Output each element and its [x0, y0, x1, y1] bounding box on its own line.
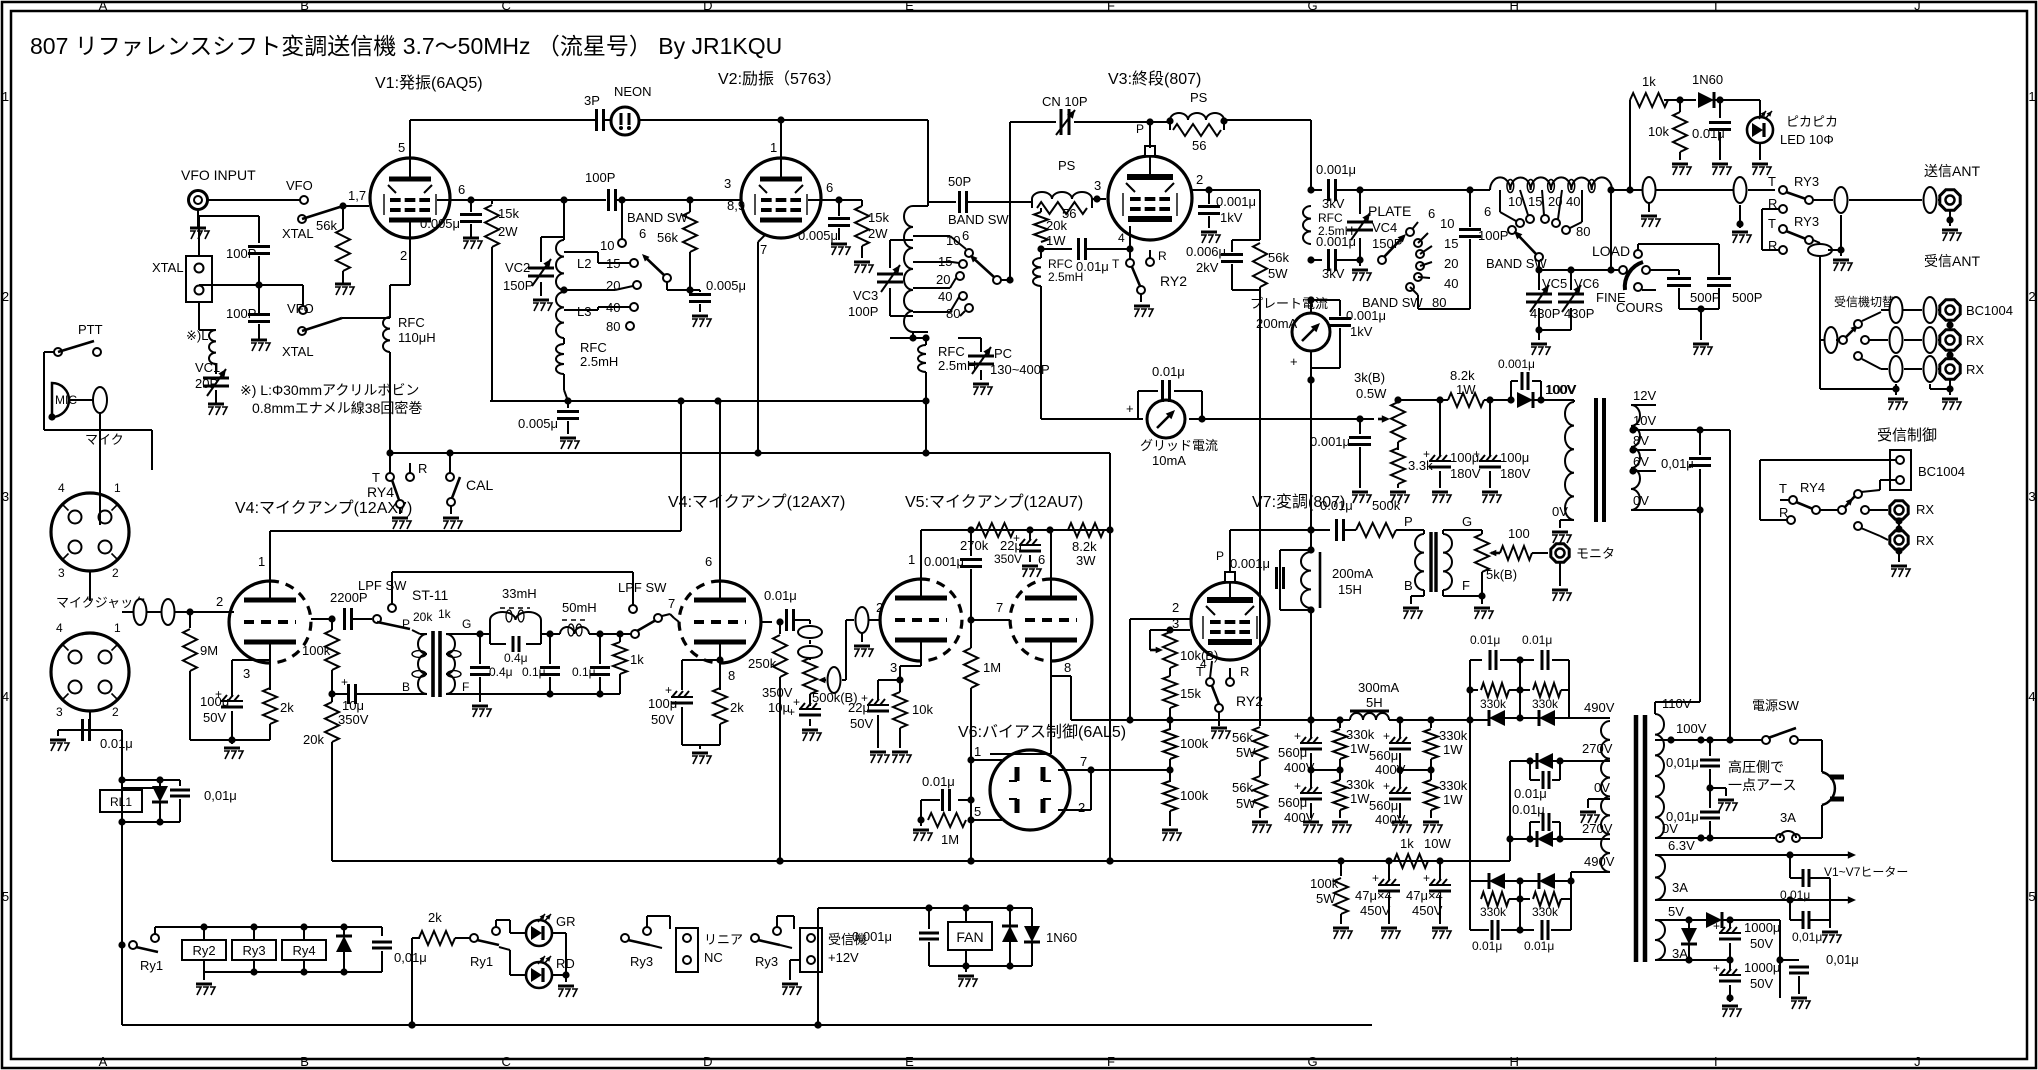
svg-text:R: R — [418, 461, 427, 476]
resistor 1k indicator — [1630, 93, 1668, 107]
bus1 B+ line y401 — [490, 400, 926, 402]
svg-text:XTAL: XTAL — [282, 226, 314, 241]
capacitor 0.001u bias — [1359, 419, 1361, 434]
svg-text:100μ: 100μ — [1500, 450, 1529, 465]
svg-text:0,01μ: 0,01μ — [204, 788, 237, 803]
svg-text:3: 3 — [243, 666, 250, 681]
screen chain down — [1259, 190, 1261, 240]
ecap 22u 50V — [867, 710, 889, 713]
svg-text:モニタ: モニタ — [1576, 546, 1615, 561]
coil L2 L3 — [563, 237, 565, 240]
switch RY2 V3 — [1126, 259, 1134, 267]
svg-text:XTAL: XTAL — [282, 344, 314, 359]
capacitor 0.005u V2 — [699, 290, 701, 292]
hc2 — [1810, 877, 1820, 879]
svg-text:20: 20 — [1444, 256, 1458, 271]
svg-text:RX: RX — [1916, 502, 1934, 517]
wire xtal top — [198, 216, 200, 256]
RFC 2.5mH plate — [1307, 186, 1314, 193]
svg-text:RY3: RY3 — [1794, 174, 1819, 189]
feedthrough ellipse ant2 — [1734, 177, 1747, 203]
svg-text:4: 4 — [56, 621, 63, 635]
ground TX jack — [1949, 211, 1951, 220]
LPF input node — [476, 630, 483, 637]
svg-text:6: 6 — [1428, 206, 1435, 221]
svg-text:6: 6 — [1038, 552, 1045, 567]
wire 250k/1M riser joins — [776, 857, 783, 864]
svg-text:80: 80 — [1576, 224, 1590, 239]
wire V4a plate up loop — [269, 531, 271, 581]
svg-text:330k: 330k — [1480, 905, 1507, 919]
svg-text:4: 4 — [2028, 689, 2035, 704]
wire 3kB top — [1397, 400, 1399, 402]
svg-text:1000μ: 1000μ — [1744, 960, 1780, 975]
svg-text:C: C — [502, 1054, 511, 1069]
feedthrough wiper — [828, 667, 841, 693]
resistor 330k 1W 2 — [1339, 770, 1341, 780]
svg-text:50V: 50V — [1750, 936, 1773, 951]
parasitic suppressor PS V3 grid — [1032, 192, 1092, 199]
wire V7 pin2 drop — [1129, 619, 1131, 720]
central B+ bus x1311 — [1310, 371, 1312, 550]
svg-text:50mH: 50mH — [562, 600, 597, 615]
heater caps 0.01u — [1802, 869, 1805, 887]
wire rx jack interconnect — [1898, 520, 1900, 530]
choke coil 15H — [1301, 552, 1311, 608]
svg-text:LPF SW: LPF SW — [618, 580, 667, 595]
svg-text:NC: NC — [704, 950, 723, 965]
cal arm — [452, 477, 460, 498]
wire V5b cathode — [1050, 642, 1052, 676]
crystal XTAL box — [186, 256, 212, 302]
svg-text:0.001μ: 0.001μ — [924, 554, 964, 569]
cap 0.4u in 33mH loop — [490, 643, 506, 645]
svg-text:0.001μ: 0.001μ — [1216, 194, 1256, 209]
cap 0.4u shunt — [479, 634, 481, 664]
svg-text:15k: 15k — [498, 206, 519, 221]
wire 5v caps — [1729, 920, 1731, 928]
wire NFB chain to B — [331, 694, 333, 702]
power xfmr core — [1636, 715, 1645, 962]
wire — [809, 640, 811, 644]
wire V2 pin6 out — [808, 199, 836, 201]
power xfmr HV winding — [1601, 721, 1610, 872]
svg-text:100: 100 — [1508, 526, 1530, 541]
svg-text:0,01μ: 0,01μ — [1666, 809, 1699, 824]
wire V6 pin5 — [971, 819, 1002, 821]
svg-text:VFO INPUT: VFO INPUT — [181, 167, 256, 183]
bridge2 diode 2 — [1520, 880, 1538, 882]
ground RY2 — [1218, 712, 1220, 726]
svg-text:100k: 100k — [1310, 876, 1339, 891]
feedthrough grid V5a — [856, 607, 869, 633]
ground mic jack — [57, 730, 59, 736]
cap 0.01u 5v — [1780, 959, 1799, 961]
wire V3 cathode — [1129, 226, 1131, 249]
wire 15k down to bus1 — [491, 247, 493, 401]
svg-text:VFO: VFO — [287, 301, 314, 316]
svg-text:P: P — [402, 617, 410, 631]
tank coil — [1490, 177, 1612, 190]
rx contact 1 — [1861, 506, 1869, 514]
svg-text:1N60: 1N60 — [1046, 930, 1077, 945]
svg-text:5H: 5H — [1366, 695, 1383, 710]
svg-text:500P: 500P — [1690, 290, 1720, 305]
wire V3 grid PS — [1030, 201, 1032, 203]
svg-text:330k: 330k — [1346, 777, 1375, 792]
500p bottom rail — [1679, 308, 1719, 310]
tube V7 807 — [1191, 582, 1269, 660]
svg-text:8: 8 — [728, 668, 735, 683]
mod xfmr B lead — [1423, 590, 1425, 596]
wire connector to jack — [89, 571, 91, 601]
wire ANT line — [1611, 189, 1630, 191]
svg-text:100k: 100k — [302, 643, 331, 658]
wire V7 grid2 — [1130, 618, 1190, 620]
svg-text:PLATE: PLATE — [1368, 203, 1411, 219]
svg-text:330k: 330k — [1532, 905, 1559, 919]
capacitor 0.001u 3kV upper — [1311, 189, 1322, 191]
wire 20k to RFC — [1040, 249, 1042, 258]
led common — [552, 932, 566, 934]
bridge2 res 330k 1 — [1469, 881, 1471, 899]
svg-text:0.001μ: 0.001μ — [1310, 434, 1350, 449]
svg-text:110μH: 110μH — [398, 330, 436, 345]
svg-text:5W: 5W — [1316, 891, 1336, 906]
mic MIC — [52, 383, 69, 417]
cap 0.01u snub 270 upper — [1529, 761, 1531, 780]
jack RX 1 — [1940, 330, 1960, 350]
tube V2 5763 — [741, 158, 821, 238]
svg-text:40: 40 — [938, 289, 952, 304]
feedthrough tx ant — [1835, 187, 1848, 213]
svg-text:33mH: 33mH — [502, 586, 537, 601]
ecap 22u 350V — [1029, 530, 1031, 540]
svg-text:50V: 50V — [850, 716, 873, 731]
svg-text:15: 15 — [1444, 236, 1458, 251]
svg-text:F: F — [1107, 1054, 1115, 1069]
svg-text:1W: 1W — [1443, 742, 1463, 757]
svg-text:10k: 10k — [912, 702, 933, 717]
wire BC1004 row — [1881, 309, 1892, 311]
switch Ry1 LED — [470, 934, 478, 942]
resistor 250k — [779, 622, 781, 634]
switch VFO/XTAL lower — [299, 306, 307, 314]
capacitor 0.01u V6 — [958, 799, 971, 801]
svg-text:E: E — [905, 1054, 914, 1069]
feedthrough bc1 — [1890, 297, 1903, 323]
svg-text:1k: 1k — [630, 652, 644, 667]
svg-text:5: 5 — [2, 889, 9, 904]
svg-text:330k: 330k — [1480, 697, 1507, 711]
svg-text:D: D — [703, 0, 712, 13]
jack interconnect verticals — [1949, 321, 1951, 329]
svg-text:3: 3 — [724, 176, 731, 191]
svg-text:4: 4 — [2, 689, 9, 704]
resistor 2k LED — [412, 937, 420, 939]
V2 tank coil vertical — [927, 202, 929, 206]
svg-text:490V: 490V — [1584, 700, 1615, 715]
capacitor 50P — [958, 191, 961, 213]
svg-text:2k: 2k — [730, 700, 744, 715]
svg-text:300mA: 300mA — [1358, 680, 1400, 695]
svg-text:2: 2 — [400, 248, 407, 263]
ground 0.005u — [470, 224, 472, 238]
vertical bus x1110 from 8.2k node to bias bus — [1109, 530, 1111, 861]
bottom long bus — [122, 1024, 1372, 1026]
capacitor 0.005u V1 out — [470, 200, 472, 212]
wire V2 output to 50P — [928, 201, 956, 203]
tube V4a 12AX7 — [229, 581, 270, 663]
resistor 1k 10W — [1394, 854, 1428, 868]
wire mic jack out — [121, 730, 123, 788]
svg-text:0,01μ: 0,01μ — [1661, 456, 1694, 471]
varcap VC6 430P — [1570, 270, 1572, 290]
svg-text:PS: PS — [1190, 90, 1208, 105]
band switch 2 rotor — [993, 276, 1001, 284]
wire wiper riser — [842, 679, 846, 681]
svg-text:T: T — [1779, 481, 1787, 496]
svg-text:270k: 270k — [960, 538, 989, 553]
svg-text:560μ: 560μ — [1278, 745, 1307, 760]
svg-text:2: 2 — [1196, 172, 1203, 187]
wire V4b cathode — [719, 644, 721, 660]
svg-text:180V: 180V — [1500, 466, 1531, 481]
ground VC1 — [215, 390, 217, 404]
resistor 15k 2W V2 — [839, 199, 862, 201]
cap 0.001u over diode — [1510, 381, 1512, 400]
capacitor 0.01u rx — [1699, 430, 1701, 455]
svg-text:I: I — [1714, 1054, 1718, 1069]
jack TX ANT — [1940, 190, 1960, 210]
svg-text:150P: 150P — [503, 278, 533, 293]
wire RX row2 — [1881, 368, 1888, 370]
svg-text:Ry1: Ry1 — [140, 958, 163, 973]
mod xfmr F lead — [1442, 590, 1444, 596]
270V rectifier upper — [1510, 760, 1530, 762]
svg-text:B: B — [1404, 578, 1413, 593]
svg-text:0.001μ: 0.001μ — [1346, 308, 1386, 323]
svg-text:8.2k: 8.2k — [1450, 368, 1475, 383]
svg-text:一点アース: 一点アース — [1728, 777, 1796, 793]
svg-text:+: + — [1473, 447, 1480, 461]
capacitor 3P — [595, 109, 598, 131]
ecap 560u 400V 2 — [1310, 770, 1312, 788]
plate row V5 — [921, 529, 1110, 531]
wire meter line left riser — [1040, 418, 1042, 420]
wire 490V vert — [1469, 719, 1471, 721]
svg-text:RY2: RY2 — [1160, 273, 1187, 289]
svg-text:47μ×4: 47μ×4 — [1406, 888, 1443, 903]
ground ant1 — [1648, 203, 1650, 212]
svg-text:Ry3: Ry3 — [755, 954, 778, 969]
svg-text:受信制御: 受信制御 — [1877, 427, 1937, 444]
relay coil RL1 box — [100, 790, 142, 812]
270V rect left vertical — [1509, 761, 1511, 861]
wire 15k2W down to gnd — [861, 246, 863, 258]
svg-text:C: C — [502, 0, 511, 13]
svg-text:6: 6 — [458, 182, 465, 197]
ecap 100u 180V 1 — [1439, 400, 1441, 456]
wire bus below meter — [1307, 376, 1314, 383]
svg-text:0.001μ: 0.001μ — [1230, 556, 1270, 571]
wire PTT left — [44, 351, 54, 353]
svg-text:Ry2: Ry2 — [192, 943, 215, 958]
wire to LED — [1720, 99, 1760, 101]
feedthrough rx1b — [1924, 327, 1937, 353]
tube V5b 12AU7 — [1051, 579, 1092, 661]
svg-text:3P: 3P — [584, 93, 600, 108]
wire V6 pin1 — [971, 759, 1002, 761]
svg-text:BAND SW: BAND SW — [627, 210, 688, 225]
svg-text:1N60: 1N60 — [1692, 72, 1723, 87]
5v out — [1730, 919, 1780, 921]
svg-text:I: I — [1714, 0, 1718, 13]
wiper arrow — [822, 679, 826, 682]
svg-text:0.01μ: 0.01μ — [1524, 939, 1554, 953]
svg-text:T: T — [1768, 216, 1776, 231]
svg-text:0.1μ: 0.1μ — [572, 665, 596, 679]
wire rx gnd bus — [1820, 388, 1896, 390]
svg-text:80: 80 — [1432, 295, 1446, 310]
svg-text:0V: 0V — [1594, 780, 1610, 795]
capacitor 0.005u V2 out — [838, 200, 840, 216]
wire V1 plate to top bus — [409, 120, 411, 158]
wire RX row1 — [1881, 339, 1888, 341]
svg-text:5V: 5V — [1668, 904, 1684, 919]
switch power SW — [1762, 736, 1770, 744]
resistor 15k 2W — [491, 200, 493, 204]
capacitor 100P tank — [1466, 186, 1473, 193]
svg-text:1000μ: 1000μ — [1744, 920, 1780, 935]
svg-text:350V: 350V — [338, 712, 369, 727]
feedthrough rx2a — [1890, 356, 1903, 382]
svg-text:VC3: VC3 — [853, 288, 878, 303]
switch RY4 keying — [386, 473, 394, 481]
pot 5k(B) — [1475, 534, 1489, 572]
wire RFC to bus1 — [563, 374, 565, 390]
wire to 490V tap — [1569, 717, 1610, 719]
svg-text:5k(B): 5k(B) — [1486, 567, 1517, 582]
svg-text:BAND SW: BAND SW — [948, 212, 1009, 227]
svg-text:450V: 450V — [1412, 903, 1443, 918]
svg-text:2: 2 — [216, 594, 223, 609]
wire to V5a grid — [869, 619, 880, 621]
svg-text:6.3V: 6.3V — [1668, 838, 1695, 853]
wire 20k to bottom bus — [331, 742, 333, 861]
svg-text:80: 80 — [606, 319, 620, 334]
svg-text:100k: 100k — [1180, 736, 1209, 751]
svg-text:0,01μ: 0,01μ — [1792, 930, 1822, 944]
svg-text:Ry3: Ry3 — [630, 954, 653, 969]
svg-text:T: T — [1112, 257, 1120, 271]
svg-text:1W: 1W — [1350, 741, 1370, 756]
wire to V4b grid — [662, 614, 670, 616]
mic wire box — [44, 413, 152, 525]
diode and cap relay bus — [343, 927, 345, 936]
svg-text:110V: 110V — [1662, 696, 1692, 711]
svg-text:100k: 100k — [1180, 788, 1209, 803]
ST11 core — [433, 631, 440, 697]
resistor 330k 1W 3 — [1430, 720, 1432, 728]
capacitor 100P upper — [258, 216, 260, 243]
svg-text:FAN: FAN — [956, 929, 983, 945]
svg-text:3k(B): 3k(B) — [1354, 370, 1385, 385]
neon lamp NEON — [611, 107, 639, 135]
svg-text:7: 7 — [996, 600, 1003, 615]
diode 490 1 — [1470, 719, 1488, 721]
svg-text:P: P — [1136, 122, 1144, 136]
svg-text:50V: 50V — [651, 712, 674, 727]
svg-text:1: 1 — [2, 89, 9, 104]
wire 80 contact to bottom rail — [1417, 295, 1419, 309]
svg-text:0V: 0V — [1552, 504, 1568, 519]
resistor 9M — [189, 612, 191, 628]
wiper 5kB — [1491, 552, 1500, 555]
svg-text:Ry4: Ry4 — [292, 943, 315, 958]
svg-text:15: 15 — [1528, 194, 1542, 209]
capacitor 0.01u mic — [89, 711, 91, 730]
connector mic 4pin — [51, 493, 129, 571]
svg-text:6: 6 — [1484, 204, 1491, 219]
wire RFC2 to bus2 — [925, 372, 927, 453]
wire 50mH out — [589, 633, 634, 635]
resistor 10k V5a — [899, 680, 901, 692]
resistor 100k upper — [1169, 720, 1171, 730]
power xfmr primary — [1655, 714, 1664, 838]
svg-text:H: H — [1510, 1054, 1519, 1069]
svg-text:330k: 330k — [1346, 727, 1375, 742]
wire V1 pin6 right — [437, 199, 468, 201]
wire — [604, 119, 611, 121]
svg-text:1: 1 — [114, 621, 121, 635]
ecap 47ux4 450V 2 — [1439, 861, 1441, 880]
taps to band switch — [564, 251, 598, 253]
resistor 56k 5W bleeder 1 — [1259, 720, 1261, 726]
svg-text:5: 5 — [974, 804, 981, 819]
wire 6.3V out — [1655, 854, 1790, 856]
power xfmr 490V bottom — [1571, 871, 1610, 873]
svg-text:22μ: 22μ — [848, 700, 870, 715]
svg-text:2k: 2k — [428, 910, 442, 925]
resistor 330k 1W 4 — [1430, 770, 1432, 780]
svg-text:56k: 56k — [657, 230, 678, 245]
svg-text:5W: 5W — [1236, 796, 1256, 811]
ecap 100u 50V — [231, 690, 233, 697]
svg-text:250k: 250k — [748, 656, 777, 671]
svg-text:20k: 20k — [1046, 218, 1067, 233]
svg-text:56k: 56k — [1232, 780, 1253, 795]
mic cable ellipse — [93, 387, 107, 413]
svg-text:15H: 15H — [1338, 582, 1362, 597]
svg-text:+: + — [1423, 871, 1430, 885]
svg-text:PTT: PTT — [78, 322, 103, 337]
wire PS to grid — [1092, 198, 1106, 200]
svg-text:CAL: CAL — [466, 477, 493, 493]
5V winding — [1655, 920, 1665, 960]
wire 100P to V2 grid — [616, 199, 741, 201]
jack RX ctrl 1 — [1890, 501, 1908, 519]
svg-text:L3: L3 — [577, 304, 591, 319]
wire xtal sel to junction — [342, 317, 390, 319]
svg-text:490V: 490V — [1584, 854, 1615, 869]
svg-text:RL1: RL1 — [110, 795, 132, 809]
svg-text:56k: 56k — [1232, 730, 1253, 745]
svg-text:リニア: リニア — [704, 932, 743, 947]
svg-text:グリッド電流: グリッド電流 — [1140, 438, 1218, 453]
svg-text:G: G — [462, 617, 471, 631]
svg-text:500k: 500k — [1372, 498, 1401, 513]
